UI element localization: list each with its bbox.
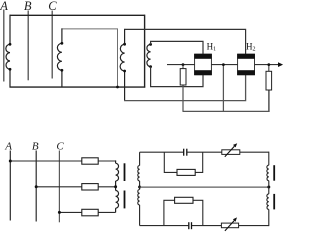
- node link right dot: [267, 186, 270, 189]
- inductor L1: [6, 15, 10, 88]
- node L3 top dot: [123, 43, 126, 46]
- wire resistor R1 lower lead: [182, 85, 184, 111]
- wire resistor R2 leads: [268, 65, 270, 112]
- capacitor C2: [189, 222, 192, 229]
- wire phase C line: [51, 11, 53, 79]
- svg-text:B: B: [32, 140, 39, 152]
- inductor L4: [147, 44, 151, 66]
- resistor R4: [175, 197, 193, 203]
- wire output line: [167, 64, 279, 66]
- wire bottom return: [183, 90, 270, 112]
- inductor L3: [120, 29, 124, 101]
- wire bottom bus: [10, 86, 146, 88]
- resistor R1: [180, 65, 186, 85]
- hall element H1: [194, 54, 212, 75]
- wire branch A: [10, 160, 115, 162]
- resistor Ra: [82, 158, 98, 164]
- wire L4 bottom to H1 bottom: [151, 67, 203, 87]
- inductor L2: [57, 28, 62, 87]
- wire branch C: [59, 211, 115, 213]
- node primary center tap dot: [114, 185, 117, 188]
- wire L4 top to H1 top: [151, 41, 203, 54]
- wire center tap drop: [222, 65, 224, 112]
- node L1 bottom dot: [9, 68, 12, 71]
- wire RC loop bottom: [164, 200, 203, 225]
- wire phase B line: [27, 11, 29, 81]
- node junction on bottom bus: [116, 86, 119, 89]
- node L4 top dot: [149, 43, 152, 46]
- svg-text:C: C: [56, 140, 64, 152]
- resistor Rb: [82, 184, 98, 190]
- svg-text:A: A: [4, 140, 12, 152]
- node L4 bottom dot: [149, 65, 152, 68]
- node L2 bottom dot: [61, 69, 64, 72]
- wire gray box top: [61, 28, 118, 30]
- wire phase C line bottom: [58, 151, 60, 223]
- wire right side down: [268, 152, 270, 166]
- node A tap dot: [9, 160, 12, 163]
- wire top bus: [10, 14, 145, 16]
- rheostat RP2: [221, 217, 238, 231]
- wire branch B: [36, 186, 115, 188]
- node B tap dot: [35, 185, 38, 188]
- resistor Rc: [82, 209, 98, 216]
- inductor right winding: [267, 165, 269, 226]
- wire bottom branch: [140, 225, 269, 227]
- node output dot 2: [222, 63, 225, 66]
- hall element H2: [237, 54, 255, 75]
- node C tap dot: [58, 211, 61, 214]
- resistor R3: [177, 169, 195, 175]
- transformer T primary winding: [116, 161, 119, 212]
- node output dot 3: [267, 63, 270, 66]
- wire center link: [140, 186, 269, 188]
- node L3 bottom dot: [123, 70, 126, 73]
- wire RC loop top: [164, 152, 202, 172]
- node L2 top dot: [61, 42, 64, 45]
- transformer T core: [124, 163, 126, 208]
- resistor R2: [266, 71, 272, 90]
- node secondary center tap dot: [138, 186, 141, 189]
- wire H2 bottom to L3 bottom: [124, 75, 246, 101]
- wire top branch: [140, 151, 269, 153]
- arrow output: [278, 62, 283, 67]
- wire phase A line bottom: [9, 151, 11, 221]
- wire phase B line bottom: [35, 151, 37, 222]
- rheostat RP1: [222, 143, 240, 157]
- capacitor C1: [184, 149, 187, 156]
- right core bars: [273, 165, 275, 209]
- wire gray box right side: [117, 29, 119, 87]
- node L1 top dot: [9, 43, 12, 46]
- transformer T secondary winding: [138, 152, 140, 225]
- wire right drop of top bus: [144, 15, 146, 88]
- node output dot 1: [182, 63, 185, 66]
- wire L3 top to H2: [125, 29, 246, 54]
- wire phase A line: [3, 10, 5, 82]
